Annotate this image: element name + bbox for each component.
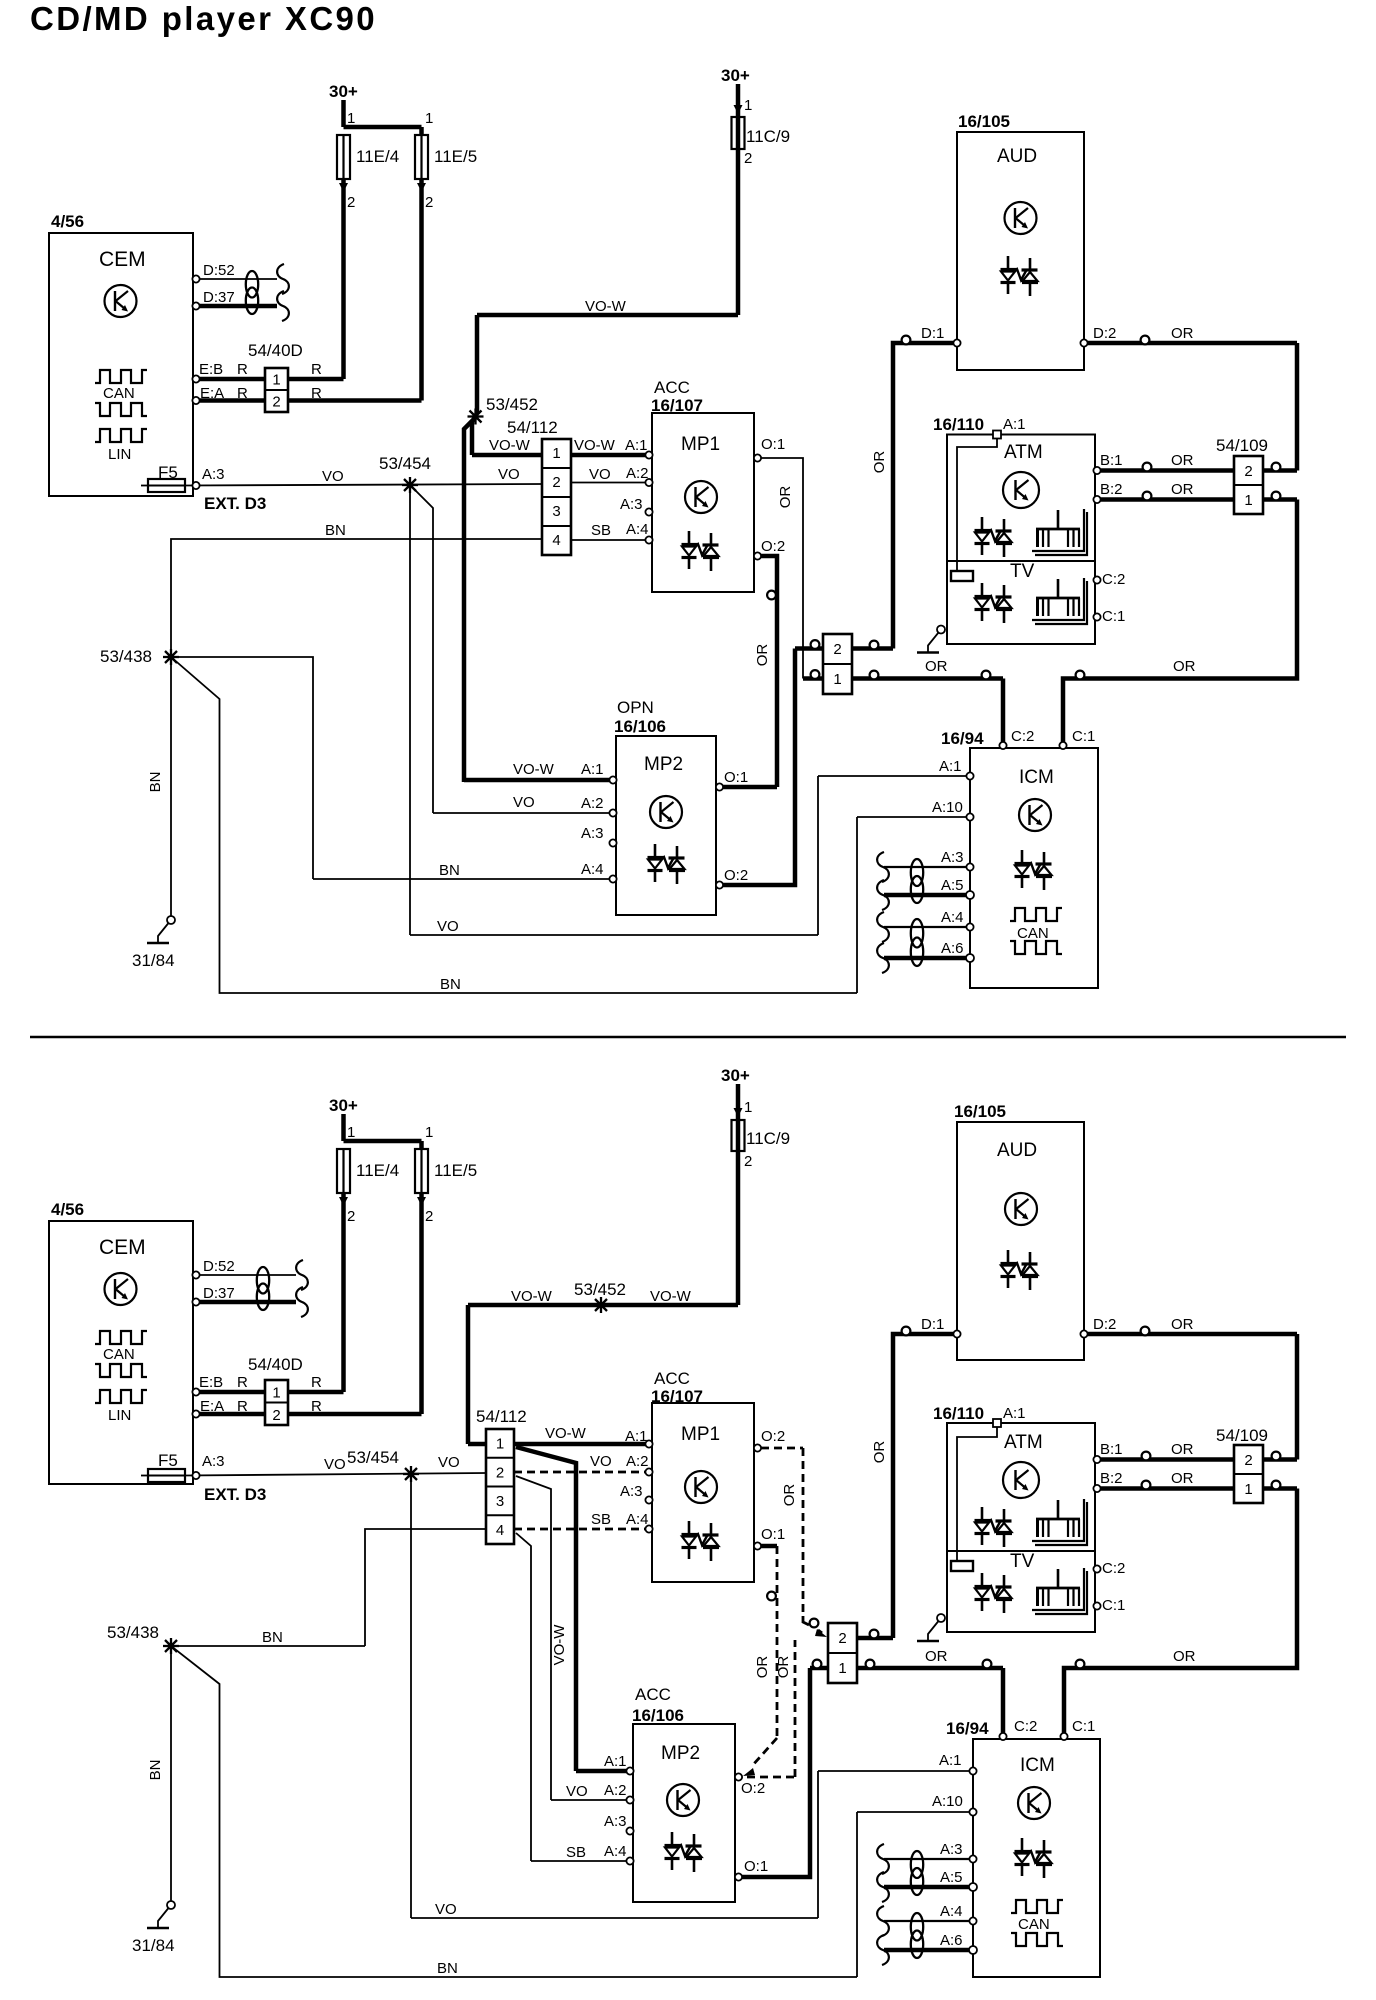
svg-text:D:2: D:2 <box>1093 325 1116 342</box>
svg-text:OR: OR <box>777 486 794 509</box>
svg-text:D:52: D:52 <box>203 262 235 279</box>
svg-text:O:2: O:2 <box>741 1780 765 1797</box>
svg-text:A:3: A:3 <box>940 1841 963 1858</box>
svg-text:VO-W: VO-W <box>489 437 531 454</box>
svg-text:D:37: D:37 <box>203 1285 235 1302</box>
svg-text:A:1: A:1 <box>939 1752 962 1769</box>
svg-text:O:2: O:2 <box>761 1428 785 1445</box>
svg-text:16/110: 16/110 <box>933 415 984 434</box>
svg-text:VO: VO <box>437 918 459 935</box>
svg-text:LIN: LIN <box>108 446 131 463</box>
svg-text:31/84: 31/84 <box>132 951 175 970</box>
svg-text:C:2: C:2 <box>1011 728 1034 745</box>
svg-text:1: 1 <box>347 1124 355 1141</box>
svg-text:E:B: E:B <box>199 361 223 378</box>
svg-text:MP1: MP1 <box>681 1424 720 1445</box>
svg-text:OR: OR <box>871 1441 888 1464</box>
svg-text:1: 1 <box>552 445 560 462</box>
svg-text:OR: OR <box>1173 1648 1196 1665</box>
svg-text:11E/4: 11E/4 <box>356 1161 399 1180</box>
svg-text:54/112: 54/112 <box>476 1407 527 1426</box>
svg-text:C:1: C:1 <box>1102 608 1125 625</box>
svg-text:53/454: 53/454 <box>379 454 431 473</box>
svg-text:VO: VO <box>322 468 344 485</box>
svg-text:OR: OR <box>754 644 771 667</box>
svg-text:CAN: CAN <box>1017 925 1049 942</box>
svg-text:A:4: A:4 <box>626 1511 649 1528</box>
svg-text:1: 1 <box>833 671 841 688</box>
svg-text:SB: SB <box>591 522 611 539</box>
svg-text:ACC: ACC <box>654 378 690 397</box>
svg-text:O:2: O:2 <box>724 867 748 884</box>
svg-text:A:1: A:1 <box>1003 416 1026 433</box>
svg-text:B:1: B:1 <box>1100 452 1123 469</box>
svg-text:2: 2 <box>347 1208 355 1225</box>
svg-text:1: 1 <box>1244 492 1252 509</box>
svg-text:1: 1 <box>272 372 280 389</box>
svg-text:EXT. D3: EXT. D3 <box>204 1485 266 1504</box>
svg-text:1: 1 <box>744 1099 752 1116</box>
svg-text:OR: OR <box>1171 452 1194 469</box>
svg-text:BN: BN <box>325 522 346 539</box>
svg-text:C:2: C:2 <box>1014 1718 1037 1735</box>
svg-text:11E/5: 11E/5 <box>434 1161 477 1180</box>
svg-text:A:4: A:4 <box>604 1843 627 1860</box>
svg-text:2: 2 <box>1244 1452 1252 1469</box>
svg-text:54/112: 54/112 <box>507 418 558 437</box>
svg-text:O:1: O:1 <box>761 1526 785 1543</box>
svg-text:31/84: 31/84 <box>132 1936 175 1955</box>
svg-text:OR: OR <box>871 451 888 474</box>
svg-text:VO-W: VO-W <box>545 1425 587 1442</box>
svg-text:BN: BN <box>440 976 461 993</box>
svg-text:E:A: E:A <box>200 1398 224 1415</box>
svg-text:OR: OR <box>1171 1441 1194 1458</box>
svg-text:AUD: AUD <box>997 146 1037 167</box>
svg-text:MP1: MP1 <box>681 434 720 455</box>
svg-text:2: 2 <box>425 1208 433 1225</box>
svg-text:16/106: 16/106 <box>632 1706 684 1725</box>
svg-text:A:3: A:3 <box>620 496 643 513</box>
svg-text:BN: BN <box>147 772 164 793</box>
svg-text:54/40D: 54/40D <box>248 1355 303 1374</box>
svg-text:53/452: 53/452 <box>574 1280 626 1299</box>
svg-text:A:1: A:1 <box>581 761 604 778</box>
svg-text:ICM: ICM <box>1020 1755 1055 1776</box>
svg-text:R: R <box>237 361 248 378</box>
svg-text:O:1: O:1 <box>744 1858 768 1875</box>
svg-text:BN: BN <box>439 862 460 879</box>
svg-text:R: R <box>311 361 322 378</box>
svg-text:54/109: 54/109 <box>1216 436 1268 455</box>
svg-text:CAN: CAN <box>103 385 135 402</box>
svg-text:ICM: ICM <box>1019 767 1054 788</box>
svg-text:2: 2 <box>272 394 280 411</box>
svg-text:16/105: 16/105 <box>954 1102 1006 1121</box>
svg-text:TV: TV <box>1010 1551 1035 1572</box>
svg-text:TV: TV <box>1010 561 1035 582</box>
svg-text:R: R <box>311 385 322 402</box>
svg-text:D:1: D:1 <box>921 1316 944 1333</box>
svg-text:4: 4 <box>496 1522 504 1539</box>
svg-text:A:5: A:5 <box>941 877 964 894</box>
svg-text:11E/4: 11E/4 <box>356 147 399 166</box>
svg-text:OPN: OPN <box>617 698 654 717</box>
svg-text:A:5: A:5 <box>940 1869 963 1886</box>
svg-text:A:1: A:1 <box>625 437 648 454</box>
svg-text:VO: VO <box>513 794 535 811</box>
svg-text:A:4: A:4 <box>581 861 604 878</box>
svg-text:16/105: 16/105 <box>958 112 1010 131</box>
svg-text:D:52: D:52 <box>203 1258 235 1275</box>
svg-text:LIN: LIN <box>108 1407 131 1424</box>
svg-text:4/56: 4/56 <box>51 212 84 231</box>
svg-text:A:6: A:6 <box>940 1932 963 1949</box>
svg-text:ATM: ATM <box>1004 1432 1043 1453</box>
svg-text:F5: F5 <box>158 1451 178 1470</box>
svg-text:1: 1 <box>496 1436 504 1453</box>
svg-text:53/438: 53/438 <box>100 647 152 666</box>
svg-text:30+: 30+ <box>329 1096 358 1115</box>
svg-text:A:4: A:4 <box>941 909 964 926</box>
svg-text:O:2: O:2 <box>761 538 785 555</box>
svg-text:A:1: A:1 <box>604 1753 627 1770</box>
svg-text:B:1: B:1 <box>1100 1441 1123 1458</box>
svg-text:C:1: C:1 <box>1072 1718 1095 1735</box>
svg-text:O:1: O:1 <box>761 436 785 453</box>
svg-text:30+: 30+ <box>721 1066 750 1085</box>
svg-text:A:3: A:3 <box>604 1813 627 1830</box>
svg-text:A:1: A:1 <box>939 758 962 775</box>
svg-text:2: 2 <box>1244 463 1252 480</box>
svg-text:VO-W: VO-W <box>585 298 627 315</box>
svg-text:A:10: A:10 <box>932 1793 963 1810</box>
svg-text:1: 1 <box>1244 1481 1252 1498</box>
svg-text:BN: BN <box>437 1960 458 1977</box>
svg-text:ATM: ATM <box>1004 442 1043 463</box>
svg-text:O:1: O:1 <box>724 769 748 786</box>
svg-text:SB: SB <box>566 1844 586 1861</box>
svg-text:VO: VO <box>589 466 611 483</box>
svg-text:A:4: A:4 <box>626 521 649 538</box>
svg-text:OR: OR <box>781 1484 798 1507</box>
svg-text:VO: VO <box>498 466 520 483</box>
svg-text:VO: VO <box>438 1454 460 1471</box>
svg-text:16/94: 16/94 <box>941 729 984 748</box>
svg-text:R: R <box>237 1398 248 1415</box>
svg-text:54/40D: 54/40D <box>248 341 303 360</box>
svg-text:A:3: A:3 <box>941 849 964 866</box>
svg-text:2: 2 <box>833 641 841 658</box>
svg-text:1: 1 <box>347 110 355 127</box>
svg-text:A:10: A:10 <box>932 799 963 816</box>
svg-text:OR: OR <box>925 658 948 675</box>
svg-text:A:6: A:6 <box>941 940 964 957</box>
svg-text:16/110: 16/110 <box>933 1404 984 1423</box>
svg-text:16/106: 16/106 <box>614 717 666 736</box>
svg-text:3: 3 <box>552 503 560 520</box>
svg-text:11E/5: 11E/5 <box>434 147 477 166</box>
svg-text:ACC: ACC <box>635 1685 671 1704</box>
svg-text:53/452: 53/452 <box>486 395 538 414</box>
svg-text:VO-W: VO-W <box>511 1288 553 1305</box>
svg-text:11C/9: 11C/9 <box>746 127 790 146</box>
svg-text:2: 2 <box>425 194 433 211</box>
svg-text:4/56: 4/56 <box>51 1200 84 1219</box>
svg-text:A:3: A:3 <box>620 1483 643 1500</box>
svg-text:VO-W: VO-W <box>551 1624 568 1666</box>
svg-text:R: R <box>311 1374 322 1391</box>
svg-text:A:3: A:3 <box>202 466 225 483</box>
svg-text:OR: OR <box>1171 481 1194 498</box>
svg-text:B:2: B:2 <box>1100 481 1123 498</box>
svg-text:VO-W: VO-W <box>513 761 555 778</box>
svg-text:R: R <box>237 385 248 402</box>
svg-text:A:2: A:2 <box>604 1782 627 1799</box>
svg-text:53/438: 53/438 <box>107 1623 159 1642</box>
svg-text:16/94: 16/94 <box>946 1719 989 1738</box>
svg-text:C:2: C:2 <box>1102 571 1125 588</box>
svg-text:1: 1 <box>838 1660 846 1677</box>
svg-text:VO: VO <box>566 1783 588 1800</box>
svg-text:EXT. D3: EXT. D3 <box>204 494 266 513</box>
svg-text:OR: OR <box>925 1648 948 1665</box>
svg-text:ACC: ACC <box>654 1369 690 1388</box>
svg-text:11C/9: 11C/9 <box>746 1129 790 1148</box>
svg-text:1: 1 <box>425 1124 433 1141</box>
svg-text:VO-W: VO-W <box>574 437 616 454</box>
svg-text:2: 2 <box>496 1464 504 1481</box>
svg-text:VO: VO <box>435 1901 457 1918</box>
svg-text:C:2: C:2 <box>1102 1560 1125 1577</box>
svg-text:4: 4 <box>552 532 560 549</box>
svg-text:E:A: E:A <box>200 385 224 402</box>
svg-text:A:1: A:1 <box>625 1428 648 1445</box>
svg-text:30+: 30+ <box>721 66 750 85</box>
svg-text:BN: BN <box>147 1760 164 1781</box>
svg-text:R: R <box>237 1374 248 1391</box>
svg-text:OR: OR <box>1171 325 1194 342</box>
svg-text:AUD: AUD <box>997 1140 1037 1161</box>
svg-text:B:2: B:2 <box>1100 1470 1123 1487</box>
svg-text:3: 3 <box>496 1493 504 1510</box>
svg-text:R: R <box>311 1398 322 1415</box>
svg-text:2: 2 <box>838 1630 846 1647</box>
svg-text:C:1: C:1 <box>1072 728 1095 745</box>
svg-text:54/109: 54/109 <box>1216 1426 1268 1445</box>
svg-text:CAN: CAN <box>1018 1916 1050 1933</box>
svg-text:D:37: D:37 <box>203 289 235 306</box>
svg-text:A:2: A:2 <box>626 1453 649 1470</box>
svg-text:D:2: D:2 <box>1093 1316 1116 1333</box>
svg-text:A:2: A:2 <box>581 795 604 812</box>
svg-text:A:3: A:3 <box>581 825 604 842</box>
svg-text:1: 1 <box>272 1385 280 1402</box>
svg-text:53/454: 53/454 <box>347 1448 399 1467</box>
svg-text:OR: OR <box>1171 1316 1194 1333</box>
svg-text:2: 2 <box>744 150 752 167</box>
svg-text:1: 1 <box>425 110 433 127</box>
svg-text:1: 1 <box>744 97 752 114</box>
svg-text:D:1: D:1 <box>921 325 944 342</box>
svg-text:A:4: A:4 <box>940 1903 963 1920</box>
svg-text:A:2: A:2 <box>626 465 649 482</box>
svg-text:2: 2 <box>552 474 560 491</box>
svg-text:A:1: A:1 <box>1003 1405 1026 1422</box>
svg-text:CEM: CEM <box>99 248 146 271</box>
svg-text:BN: BN <box>262 1629 283 1646</box>
svg-text:E:B: E:B <box>199 1374 223 1391</box>
svg-text:MP2: MP2 <box>661 1743 700 1764</box>
svg-text:OR: OR <box>1171 1470 1194 1487</box>
svg-text:OR: OR <box>1173 658 1196 675</box>
svg-text:OR: OR <box>775 1656 792 1679</box>
svg-text:MP2: MP2 <box>644 754 683 775</box>
svg-text:SB: SB <box>591 1511 611 1528</box>
svg-text:2: 2 <box>272 1407 280 1424</box>
svg-text:CEM: CEM <box>99 1236 146 1259</box>
svg-text:C:1: C:1 <box>1102 1597 1125 1614</box>
svg-text:2: 2 <box>744 1153 752 1170</box>
svg-text:30+: 30+ <box>329 82 358 101</box>
svg-text:CD/MD player XC90: CD/MD player XC90 <box>30 0 377 37</box>
svg-text:OR: OR <box>754 1656 771 1679</box>
svg-text:2: 2 <box>347 194 355 211</box>
svg-text:VO: VO <box>324 1456 346 1473</box>
svg-text:VO-W: VO-W <box>650 1288 692 1305</box>
svg-text:A:3: A:3 <box>202 1453 225 1470</box>
svg-text:CAN: CAN <box>103 1346 135 1363</box>
svg-text:VO: VO <box>590 1453 612 1470</box>
